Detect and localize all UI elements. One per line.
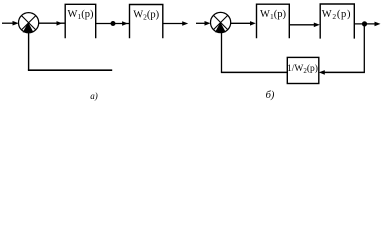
arrowhead of feedback entering summing junction b [215, 22, 226, 32]
arrow into summing junction b [205, 21, 211, 26]
svg-text:W2(p): W2(p) [322, 9, 351, 21]
svg-text:W1(p): W1(p) [68, 9, 94, 21]
wire: feedback right riser b (from output node down) [363, 24, 365, 73]
wire: summing junction a to block W1 [39, 22, 65, 24]
wire: summing junction b to block W1 (b) [231, 22, 252, 24]
svg-text:1/W2(p): 1/W2(p) [287, 63, 318, 75]
summing junction a (circle with cross) [19, 13, 39, 33]
block W2(p) of diagram b (open bottom) [320, 4, 354, 39]
wire: feedback horizontal a [28, 69, 112, 71]
wire: feedback horizontal b, right riser to 1/W2 box [325, 71, 365, 73]
arrow into summing junction a [13, 21, 19, 26]
wire: output of diagram a [163, 23, 183, 25]
svg-text:W1(p): W1(p) [260, 9, 286, 21]
arrow into block W1 (b) [250, 21, 256, 26]
arrowhead of feedback entering summing junction a [23, 22, 34, 32]
arrow into block W2 (a) [122, 21, 128, 26]
svg-text:а): а) [90, 91, 98, 101]
output arrowhead a [182, 21, 188, 26]
node dot on output of diagram b [362, 21, 367, 26]
node dot between W1 and W2 (a) [111, 21, 116, 26]
svg-text:W2(p): W2(p) [133, 9, 159, 21]
wire: feedback horizontal b, junction to 1/W2 box [221, 71, 287, 73]
block W2(p) of diagram a (open bottom) [130, 5, 163, 39]
arrow into block W1 (a) [57, 21, 63, 26]
summing junction b (circle with cross) [211, 12, 231, 32]
block W1(p) of diagram a (open bottom) [65, 4, 96, 38]
arrow into block W2 (b) [314, 23, 320, 28]
arrow into 1/W2 box (pointing left) [319, 70, 325, 75]
wire: output of diagram b [354, 23, 375, 25]
wire: input of diagram b [196, 22, 206, 24]
wire: block W1 to block W2 (a) [96, 23, 130, 25]
wire: feedback vertical a [28, 33, 30, 71]
svg-text:б): б) [266, 90, 275, 101]
wire: input of diagram a [2, 22, 14, 24]
block W1(p) of diagram b (open bottom) [257, 4, 290, 38]
wire: feedback vertical b (left riser) [221, 32, 223, 72]
output arrowhead b [375, 22, 381, 27]
block 1/W2(p) feedback box [287, 57, 319, 83]
wire: block W1 to block W2 (b) [289, 24, 315, 26]
